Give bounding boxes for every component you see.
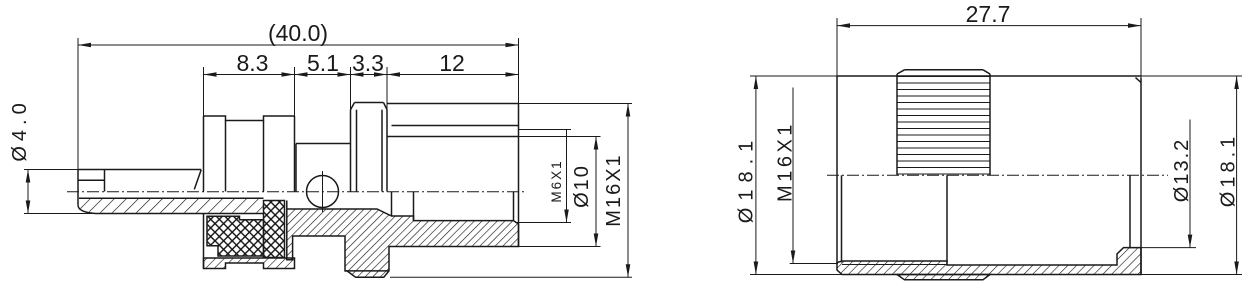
nut right face (294, 116, 296, 192)
collar chamfer right (983, 70, 990, 74)
hex disc left face (350, 110, 352, 192)
nut outer top edge (837, 75, 1141, 77)
M16X1 top extension (519, 103, 633, 105)
svg-text:Ø13.2: Ø13.2 (1171, 138, 1193, 202)
phi10 bottom extension (519, 246, 601, 248)
M6X1 leader line with arrow (566, 130, 568, 223)
dimension 8.3 (204, 74, 295, 76)
thread relief line (392, 125, 519, 127)
barrel top silhouette (78, 169, 201, 171)
svg-text:Ø18.1: Ø18.1 (736, 134, 758, 223)
svg-text:(40.0): (40.0) (268, 20, 328, 46)
svg-text:27.7: 27.7 (966, 1, 1011, 27)
phi10 dim line (595, 137, 597, 247)
bottom extension line common (750, 274, 1242, 276)
dimension 27.7 dim line (837, 25, 1141, 27)
cross hole circle (307, 176, 339, 208)
M6 bottom extension line (515, 222, 571, 224)
internal thread end wall (946, 175, 948, 262)
phi10 silhouette line (387, 136, 519, 138)
nut right face (1140, 78, 1142, 275)
barrel bore line (section) (79, 197, 264, 199)
cross hole center tick (322, 171, 324, 212)
dimension (40.0) arrows (78, 43, 91, 48)
extension line 3.3/12 (386, 67, 388, 110)
right end face (518, 104, 520, 247)
knurled collar right edge (989, 74, 991, 175)
phi18.1 right top extension (1141, 75, 1242, 77)
groove section edge (295, 144, 297, 192)
extension line 8.3 left (203, 67, 205, 116)
dimension (40.0) dim line (78, 44, 519, 46)
extension line phi4 top (24, 169, 78, 171)
phi18.1 left top extension (750, 75, 837, 77)
phi18.1 left dim line (755, 76, 757, 275)
thread chamfer line (841, 175, 843, 262)
extension line 5.1/3.3 (350, 67, 352, 110)
hex disc top chamfer left (351, 103, 355, 110)
hex disc top face (355, 102, 384, 104)
M16X1 dim line (627, 104, 629, 278)
nut left face lower (203, 214, 205, 269)
collar chamfer left (897, 70, 905, 74)
nut top profile (204, 116, 295, 121)
extension line left of (40.0) (77, 38, 79, 170)
right face corner chamfer (1136, 78, 1142, 83)
M6 pocket wall left (391, 192, 393, 217)
barrel wall hatch (79, 199, 264, 213)
extension 27.7 right (1140, 18, 1142, 78)
nut rib line 2 (263, 121, 265, 192)
body left face (77, 170, 79, 206)
collar top face (905, 69, 984, 71)
lip inner edge (1129, 175, 1131, 247)
hex disc top chamfer right (384, 103, 388, 110)
phi18.1 right dim line (1236, 76, 1238, 275)
nut rib line 1 (225, 121, 227, 192)
M6 pocket wall mid (413, 192, 415, 221)
barrel bottom with fillet (78, 205, 264, 213)
svg-text:M16X1: M16X1 (775, 121, 797, 202)
step tick at 104.5 (104, 170, 106, 192)
collar bottom rim section (897, 275, 990, 280)
M16X1 right view leader (792, 88, 794, 264)
svg-text:5.1: 5.1 (307, 50, 339, 76)
extension line right of (40.0) and 12 (518, 38, 520, 104)
centerline right view (827, 174, 1168, 176)
phi13.2 bottom extension (1130, 247, 1196, 249)
knurl lines (897, 77, 990, 175)
svg-text:Ø4.0: Ø4.0 (9, 98, 31, 161)
dimension phi4.0 dim line (27, 170, 29, 214)
svg-text:3.3: 3.3 (352, 50, 384, 76)
nut left face (836, 76, 838, 264)
insulator column B cross hatch (264, 201, 285, 258)
cone silhouette diagonal (194, 170, 201, 190)
extension 27.7 left / nut left face (836, 18, 838, 76)
M16X1 right bottom extension (790, 263, 838, 265)
M6 pocket wall right (513, 192, 515, 221)
M6X1 leader shoulder (519, 129, 572, 131)
knurled collar left edge (896, 74, 898, 175)
body section polygon (287, 209, 519, 277)
groove section top (296, 143, 351, 145)
svg-text:M6X1: M6X1 (549, 159, 564, 202)
insulator block A cross hatch (207, 216, 264, 256)
dimension 5.1 (295, 74, 351, 76)
svg-text:12: 12 (439, 50, 465, 76)
centerline left view (67, 191, 527, 193)
svg-text:8.3: 8.3 (237, 50, 269, 76)
M16X1 bottom extension (390, 276, 632, 278)
nut wall section band (837, 248, 1141, 275)
phi13.2 leader (1189, 120, 1191, 248)
dimension 12 (387, 74, 519, 76)
nut lower wall section (204, 258, 295, 269)
body skirt line (286, 201, 288, 210)
extension line 8.3/5.1 (294, 67, 296, 116)
hex disc chamfer edge line 1 (356, 110, 358, 192)
hex disc right face (386, 110, 388, 192)
hex disc chamfer edge line 2 (381, 110, 383, 192)
disc bottom edge line (345, 270, 389, 272)
extension line phi4 bottom (24, 213, 96, 215)
pin line (78, 179, 105, 181)
svg-text:Ø10: Ø10 (571, 164, 593, 208)
nut left face (203, 116, 205, 192)
svg-text:Ø18.1: Ø18.1 (1218, 133, 1240, 207)
dimension 3.3 (351, 74, 388, 76)
phi10 top extension (519, 136, 601, 138)
M16 thread section top (387, 103, 519, 105)
svg-text:M16X1: M16X1 (603, 153, 625, 226)
thread crest line in band (842, 264, 947, 266)
